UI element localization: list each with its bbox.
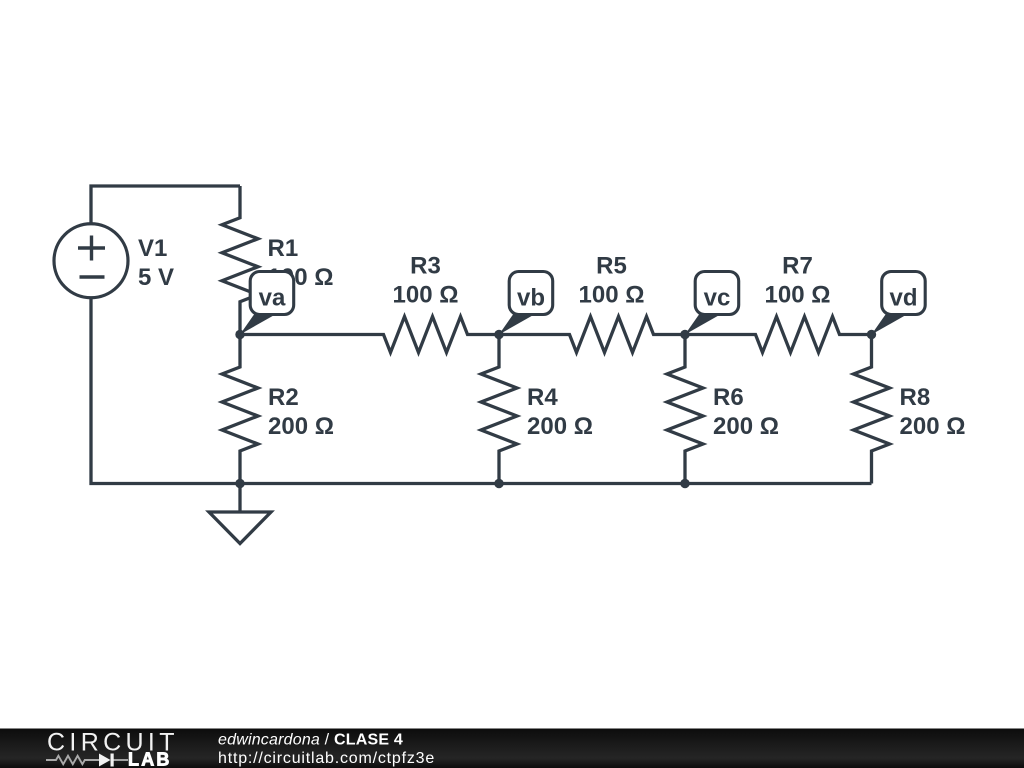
wire main + resistor R3 + resistor R5 + resistor R7 [240,317,872,353]
resistor R2 [222,335,258,484]
svg-text:200 Ω: 200 Ω [527,413,593,440]
node vc junction dot [680,330,689,339]
resistor R6 [667,335,703,484]
svg-text:V1: V1 [138,235,167,262]
voltage source V1 [54,224,128,298]
footer bar [0,729,1024,768]
svg-text:R6: R6 [713,384,744,411]
wire top: V1 top to R1 top [91,186,240,224]
svg-text:100 Ω: 100 Ω [579,282,645,309]
resistor R4 [481,335,517,484]
node vb junction dot [494,330,503,339]
svg-text:edwincardona / CLASE 4: edwincardona / CLASE 4 [218,732,403,749]
wire left + bottom rail [91,298,872,484]
svg-text:100 Ω: 100 Ω [765,282,831,309]
node label vc [685,272,739,335]
svg-text:R8: R8 [900,384,931,411]
svg-text:vd: vd [889,285,917,312]
svg-text:200 Ω: 200 Ω [713,413,779,440]
node label vd [872,272,926,335]
svg-text:va: va [259,285,286,312]
junction dot ground rail at R6 [680,479,689,488]
svg-text:LAB: LAB [128,750,172,768]
resistor R1 [222,186,258,335]
svg-text:100 Ω: 100 Ω [393,282,459,309]
svg-text:R3: R3 [410,253,441,280]
svg-text:vc: vc [704,285,731,312]
resistor R8 [854,335,890,484]
node label va [240,272,294,335]
ground [209,512,271,544]
node vd junction dot [867,330,876,339]
svg-text:vb: vb [517,285,545,312]
svg-text:R2: R2 [268,384,299,411]
svg-text:R4: R4 [527,384,558,411]
svg-text:R7: R7 [782,253,813,280]
svg-text:http://circuitlab.com/ctpfz3e: http://circuitlab.com/ctpfz3e [218,750,435,767]
logo resistor-diode art [46,756,128,764]
node label vb [499,272,553,335]
junction dot ground rail at R4 [494,479,503,488]
junction dot ground rail at R2 [235,479,244,488]
svg-text:200 Ω: 200 Ω [268,413,334,440]
logo diode [99,754,114,767]
svg-text:5 V: 5 V [138,264,174,291]
node va junction dot [235,330,244,339]
ground wire [238,484,241,513]
svg-text:200 Ω: 200 Ω [900,413,966,440]
svg-text:R1: R1 [268,235,299,262]
svg-text:R5: R5 [596,253,627,280]
